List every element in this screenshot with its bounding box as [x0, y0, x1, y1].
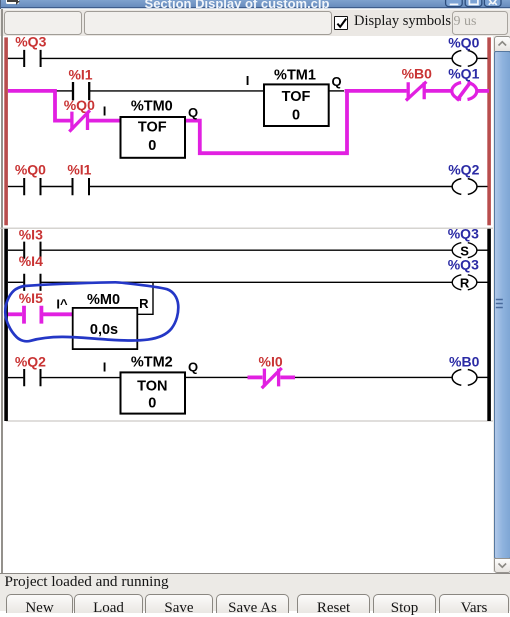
contact %Q2 (NO) — [24, 369, 40, 386]
svg-text:Q: Q — [188, 360, 198, 375]
powered wire to contact %B0 — [345, 89, 407, 93]
svg-text:R: R — [139, 296, 149, 311]
svg-text:%I5: %I5 — [19, 290, 43, 306]
wire %I0 to coil %B0 — [295, 376, 452, 378]
slash of negated coil %Q1 — [457, 82, 471, 101]
powered stub after contact %I0 — [280, 375, 295, 379]
wire rail to contact %I3 — [8, 249, 24, 251]
timer block %TM1 — [264, 84, 329, 126]
powered wire %B0 to coil %Q1 — [425, 89, 452, 93]
wire coil to right rail — [477, 281, 487, 283]
contact %B0 (NC, powered) — [408, 82, 424, 99]
section separator line 1 — [0, 228, 493, 229]
slash of NC contact %B0 — [406, 82, 427, 101]
svg-text:%Q2: %Q2 — [15, 354, 46, 370]
powered wire TM0 Q output down and across — [185, 92, 347, 153]
svg-text:%Q0: %Q0 — [15, 161, 46, 177]
svg-text:TOF: TOF — [282, 89, 311, 105]
contact %Q3 (NO) — [24, 50, 40, 67]
svg-text:%Q3: %Q3 — [448, 225, 479, 241]
wire coil to right rail — [477, 376, 487, 378]
titlebar buttons — [0, 0, 510, 9]
wire coil to right rail — [477, 249, 487, 251]
contact %Q0 (NO) — [24, 178, 40, 195]
contact %Q0 (NC, powered) — [72, 112, 88, 130]
powered wire %I5 to block %M0 — [43, 312, 73, 316]
slash of NC contact %Q0 — [69, 110, 90, 131]
svg-text:0: 0 — [148, 396, 156, 412]
slash of NC contact %I0 — [262, 368, 282, 388]
contact %I1 (NO) — [73, 178, 90, 195]
contact %I0 (NC, powered) — [264, 369, 278, 387]
timer block %TM2 — [121, 372, 186, 413]
svg-text:%I1: %I1 — [67, 161, 91, 177]
svg-text:I: I — [103, 359, 107, 374]
wire %I1 to timer TM1 input — [90, 90, 264, 92]
svg-text:0: 0 — [148, 138, 156, 154]
svg-text:Q: Q — [188, 105, 198, 120]
wire to timer TM2 input — [41, 377, 120, 379]
contact %I4 (NO) — [24, 274, 40, 291]
svg-text:%Q1: %Q1 — [448, 66, 479, 82]
left power rail section 2 — [4, 229, 8, 421]
svg-text:%B0: %B0 — [402, 66, 433, 82]
checkbox — [334, 16, 348, 30]
contact %I1 (NO) — [73, 82, 89, 100]
right power rail section 2 — [487, 229, 491, 421]
svg-text:%Q2: %Q2 — [448, 161, 479, 177]
wire contact Q3 to coil Q0 — [42, 57, 453, 59]
block %M0 (timer) — [73, 308, 138, 349]
wire coil to right rail — [477, 186, 487, 188]
svg-text:%I4: %I4 — [19, 253, 43, 269]
wire between contacts — [41, 186, 71, 188]
svg-text:R: R — [460, 275, 470, 290]
svg-text:%B0: %B0 — [449, 354, 480, 370]
svg-text:%Q3: %Q3 — [448, 256, 479, 272]
powered wire %Q0 to timer TM0 input — [89, 119, 121, 123]
svg-text:%Q3: %Q3 — [15, 36, 46, 50]
reset coil %Q3 (R) — [452, 275, 477, 290]
svg-text:%I0: %I0 — [259, 354, 283, 370]
powered wire from left rail with drop to %Q0 branch — [8, 91, 71, 121]
contact %I3 (NO) — [24, 242, 40, 259]
svg-text:%Q0: %Q0 — [64, 97, 95, 113]
wire rail to contact %Q0 — [8, 186, 24, 188]
wire to set coil — [41, 249, 452, 251]
svg-text:I: I — [246, 73, 250, 88]
wire to coil %Q2 — [90, 186, 452, 188]
svg-text:%Q0: %Q0 — [448, 36, 479, 51]
svg-text:I: I — [103, 104, 107, 119]
wire branch to contact %I1 — [57, 90, 72, 92]
wire TM2 Q output — [185, 376, 248, 378]
left power rail section 1 — [4, 37, 8, 225]
section separator line 2 — [6, 420, 493, 421]
svg-text:I^: I^ — [56, 296, 68, 311]
coil %Q0 — [452, 51, 477, 67]
powered stub before contact %I0 — [248, 375, 263, 379]
svg-text:TOF: TOF — [138, 120, 167, 136]
coil %Q2 — [452, 179, 477, 195]
svg-text:%TM2: %TM2 — [131, 355, 173, 371]
right power rail section 1 — [487, 37, 491, 225]
blue hand-drawn annotation ellipse — [5, 282, 178, 341]
wire rail to contact %Q2 — [8, 377, 24, 379]
svg-text:0,0s: 0,0s — [90, 322, 118, 338]
wire rail to contact Q3 — [8, 57, 24, 59]
title text — [0, 0, 510, 9]
wire rail to contact %I4 — [8, 281, 24, 283]
svg-text:%I3: %I3 — [19, 227, 43, 243]
set coil %Q3 (S) — [452, 243, 477, 258]
timer block %TM0 — [121, 117, 186, 158]
svg-text:TON: TON — [137, 379, 167, 395]
powered wire rail to contact %I5 — [8, 312, 22, 316]
branch wire down to %M0 R pin — [137, 282, 153, 314]
svg-text:%M0: %M0 — [87, 292, 120, 308]
svg-text:%I1: %I1 — [68, 67, 92, 83]
wire to reset coil — [41, 281, 452, 283]
contact %I5 (NO, powered) — [24, 306, 41, 324]
svg-text:%TM1: %TM1 — [274, 68, 316, 84]
wire TM1 Q output stub — [329, 90, 344, 92]
coil %Q1 (negated, powered) — [452, 83, 477, 100]
window icon fragment — [6, 0, 20, 4]
svg-text:Q: Q — [332, 74, 342, 89]
window left border line — [1, 9, 2, 573]
coil %B0 — [452, 370, 477, 386]
wire coil Q0 to right rail — [477, 57, 487, 59]
svg-text:%TM0: %TM0 — [131, 99, 173, 115]
svg-text:0: 0 — [292, 107, 300, 123]
powered wire coil %Q1 to right rail — [477, 89, 489, 93]
